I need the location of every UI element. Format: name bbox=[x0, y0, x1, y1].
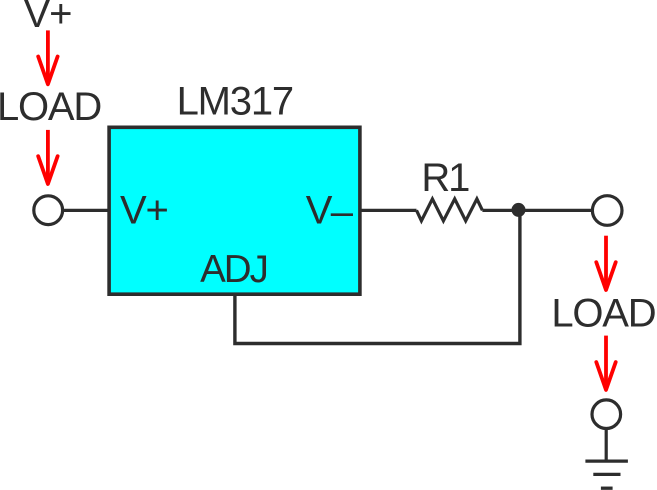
arrow (current into input terminal) bbox=[38, 130, 57, 184]
svg-text:ADJ: ADJ bbox=[200, 248, 267, 291]
arrow (current into input load) bbox=[38, 30, 57, 84]
resistor R1 bbox=[417, 199, 483, 221]
wire (V- pin to resistor) bbox=[360, 209, 417, 212]
terminal (output) bbox=[592, 196, 622, 226]
regulator U1 LM317 body bbox=[109, 127, 360, 294]
ground bbox=[585, 461, 628, 488]
svg-text:LOAD: LOAD bbox=[0, 85, 101, 129]
wire (ADJ feedback: ADJ pin down, right, up to output node) bbox=[235, 212, 520, 344]
terminal (ground side) bbox=[592, 400, 621, 429]
wire (terminal to ground) bbox=[605, 430, 608, 462]
wire (input terminal to V+ pin) bbox=[64, 209, 109, 212]
svg-text:LOAD: LOAD bbox=[551, 291, 655, 335]
junction (output node) bbox=[512, 203, 526, 217]
wire (resistor to output terminal) bbox=[482, 209, 592, 212]
svg-text:R1: R1 bbox=[421, 156, 469, 200]
svg-text:V–: V– bbox=[306, 189, 354, 235]
svg-text:V+: V+ bbox=[120, 189, 168, 233]
arrow (current into output load) bbox=[596, 236, 615, 290]
terminal (input) bbox=[34, 196, 63, 225]
arrow (current to ground terminal) bbox=[596, 336, 615, 390]
svg-text:LM317: LM317 bbox=[177, 80, 293, 124]
